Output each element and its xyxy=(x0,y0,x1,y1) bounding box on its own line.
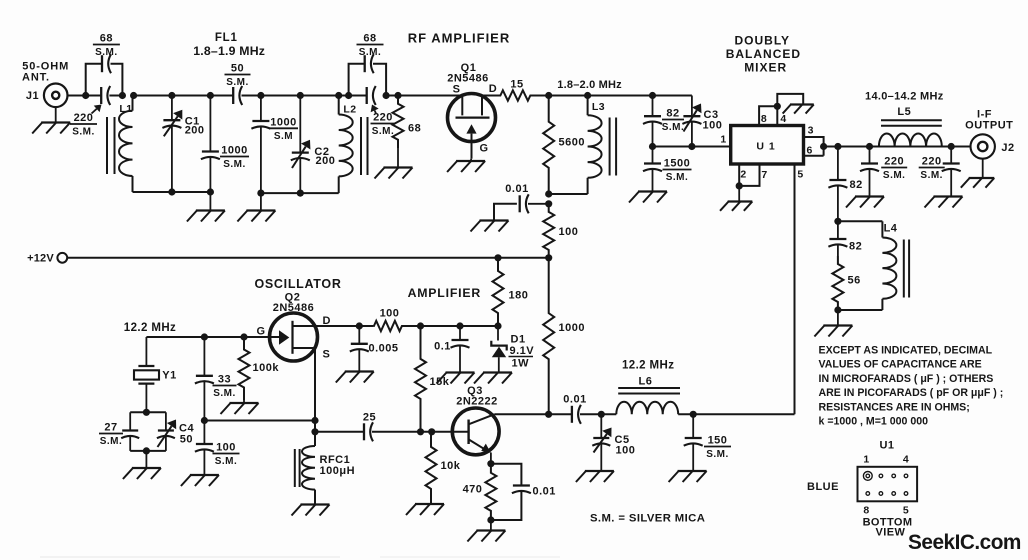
svg-text:5: 5 xyxy=(797,169,803,181)
junction C5 top xyxy=(598,411,605,418)
wire 68 gnd stem xyxy=(397,148,399,168)
svg-text:3: 3 xyxy=(808,125,814,137)
svg-text:S: S xyxy=(453,84,461,96)
transistor Q3 xyxy=(452,408,499,455)
svg-text:12.2 MHz: 12.2 MHz xyxy=(622,360,674,372)
label 2N5486 Q2 xyxy=(273,302,315,314)
capacitor 25 xyxy=(364,422,373,441)
label 220 S.M. no2 xyxy=(371,105,396,138)
label 1000 S.M. no1 xyxy=(220,145,249,171)
wire Q1 gate stem xyxy=(470,159,472,161)
label pin 5 xyxy=(797,169,803,181)
ground 1500 xyxy=(629,192,667,203)
label S Q1 xyxy=(453,84,461,96)
label 2N2222 xyxy=(456,396,498,408)
core L5 xyxy=(881,120,942,126)
inductor L6 xyxy=(616,376,678,415)
ground Q1 xyxy=(447,161,485,172)
svg-text:33: 33 xyxy=(218,374,231,386)
svg-text:+12V: +12V xyxy=(27,252,54,264)
label RFC1 xyxy=(320,454,351,466)
label pin 4 xyxy=(780,113,786,125)
junction out node xyxy=(834,143,841,150)
label 50 S.M. xyxy=(225,63,251,89)
junction L4 bottom xyxy=(834,306,841,313)
label MIXER xyxy=(744,60,787,74)
label 82 S.M. xyxy=(662,108,685,134)
svg-text:BALANCED: BALANCED xyxy=(726,47,801,61)
wire pin 8 xyxy=(759,106,777,125)
capacitor 68 S.M. input xyxy=(102,54,111,73)
resistor 10k xyxy=(426,432,461,504)
capacitor 0.1 xyxy=(434,326,469,373)
ground tank2 xyxy=(237,211,275,222)
svg-text:8: 8 xyxy=(863,505,869,517)
label C1 200 xyxy=(185,115,205,136)
inductor L4 xyxy=(882,221,897,310)
label 1.8-2.0 MHz xyxy=(557,79,622,91)
wire input parallel loop xyxy=(86,64,123,96)
faint caption fragment xyxy=(40,556,560,558)
label 150 S.M. xyxy=(704,435,731,461)
wire Q2 S down xyxy=(314,348,316,432)
junction C1 bottom xyxy=(168,188,175,195)
junction 180 bottom xyxy=(494,322,501,329)
label G Q2 xyxy=(256,326,265,338)
svg-text:10k: 10k xyxy=(441,460,461,472)
svg-text:2N2222: 2N2222 xyxy=(456,396,498,408)
junction C2 top xyxy=(297,92,304,99)
label pin 7 xyxy=(761,169,767,181)
junction 0.1 top xyxy=(456,322,463,329)
wire pin 2 xyxy=(738,164,740,186)
label D1 xyxy=(511,334,526,346)
capacitor C1 xyxy=(162,96,182,193)
label C4 50 xyxy=(179,423,194,446)
svg-text:IN MICROFARADS ( μF ) ; OTHER: IN MICROFARADS ( μF ) ; OTHERS xyxy=(819,373,994,385)
wire J1 stem xyxy=(55,107,57,122)
ground 0.1 xyxy=(437,373,475,384)
svg-text:1.8–2.0 MHz: 1.8–2.0 MHz xyxy=(557,79,622,91)
label BOTTOM VIEW xyxy=(863,517,913,539)
label BALANCED xyxy=(726,47,801,61)
junction 33SM top xyxy=(201,333,208,340)
label pin 3 xyxy=(808,125,814,137)
junction emitter xyxy=(487,460,494,467)
junction 220-2 right xyxy=(383,92,390,99)
svg-text:2: 2 xyxy=(740,169,746,181)
svg-text:S.M.: S.M. xyxy=(372,126,395,137)
svg-text:L1: L1 xyxy=(119,103,132,115)
label 1500 S.M. xyxy=(663,158,692,184)
label U1 dip xyxy=(879,440,894,452)
note text block xyxy=(819,345,1004,428)
label 1000 S.M. no2 xyxy=(269,116,298,142)
label 68 S.M. no2 xyxy=(357,33,384,59)
label pin 6 xyxy=(807,145,813,157)
svg-text:1500: 1500 xyxy=(664,158,690,170)
resistor 15 xyxy=(482,79,549,101)
label 27 S.M. xyxy=(99,422,123,448)
svg-text:L3: L3 xyxy=(592,101,605,113)
wire C4 loop top xyxy=(130,411,166,413)
svg-text:15k: 15k xyxy=(430,376,450,388)
core L6 xyxy=(618,388,680,394)
capacitor C3 xyxy=(682,96,701,147)
svg-text:100: 100 xyxy=(380,308,400,320)
svg-text:S.M.: S.M. xyxy=(662,122,685,133)
label pin 1 xyxy=(720,134,726,146)
capacitor 82 S.M. xyxy=(643,96,662,147)
wire pin1 rail xyxy=(653,146,731,148)
svg-text:S.M.: S.M. xyxy=(883,170,906,181)
svg-text:VIEW: VIEW xyxy=(876,527,906,539)
label I-F OUTPUT xyxy=(965,109,1013,132)
label 12.2 MHz osc xyxy=(124,322,176,334)
label 220 S.M. left xyxy=(881,156,907,182)
svg-text:5600: 5600 xyxy=(559,137,585,149)
capacitor 150 S.M. xyxy=(684,414,703,471)
junction emitter gnd xyxy=(487,516,494,523)
label D Q2 xyxy=(323,315,331,327)
inductor RFC1 xyxy=(302,432,315,505)
svg-text:S.M.: S.M. xyxy=(706,449,729,460)
label pin 2 xyxy=(740,169,746,181)
label SILVER MICA xyxy=(590,513,705,525)
ground 220R xyxy=(925,197,963,208)
wire pin 6 xyxy=(804,147,824,156)
svg-text:0.01: 0.01 xyxy=(505,183,528,195)
svg-text:J1: J1 xyxy=(26,90,39,102)
junction tank2 gnd xyxy=(257,190,264,197)
capacitor C5 xyxy=(592,414,611,471)
wire pin 7 xyxy=(739,164,759,186)
svg-text:D: D xyxy=(489,83,497,95)
junction C4 bottom xyxy=(143,447,150,454)
label 2N5486 Q1 xyxy=(447,73,489,85)
svg-text:L4: L4 xyxy=(884,223,898,235)
junction 100k top xyxy=(240,333,247,340)
junction 220R top xyxy=(948,143,955,150)
svg-text:OUTPUT: OUTPUT xyxy=(965,120,1013,132)
core L3 xyxy=(610,118,617,176)
svg-text:100: 100 xyxy=(616,445,636,457)
wire to Q1 S xyxy=(386,95,462,97)
svg-text:220: 220 xyxy=(884,156,904,168)
svg-text:100: 100 xyxy=(216,442,236,454)
label OSCILLATOR xyxy=(254,277,341,291)
junction 1000 bottom amp xyxy=(545,411,552,418)
label pin 8 xyxy=(761,113,767,125)
capacitor C2 xyxy=(291,96,311,194)
inductor L1 xyxy=(119,96,133,193)
svg-text:82: 82 xyxy=(849,241,862,253)
wire S to 25 xyxy=(315,431,364,433)
svg-text:14.0–14.2 MHz: 14.0–14.2 MHz xyxy=(865,91,944,103)
capacitor 0.005 xyxy=(350,326,399,372)
junction L1 left xyxy=(119,92,126,99)
svg-text:L6: L6 xyxy=(638,376,652,388)
junction 82SM top xyxy=(649,92,656,99)
svg-text:100μH: 100μH xyxy=(320,465,356,477)
junction 82SM bottom xyxy=(649,143,656,150)
svg-text:1000: 1000 xyxy=(221,145,247,157)
svg-text:68: 68 xyxy=(363,33,376,45)
transistor Q1 xyxy=(448,94,496,159)
capacitor 220 S.M. input xyxy=(101,86,110,105)
svg-text:SeekIC.com: SeekIC.com xyxy=(908,531,1021,554)
capacitor 220 S.M. left xyxy=(860,147,879,197)
label 100uH xyxy=(320,465,356,477)
wire C4 gnd stem xyxy=(145,451,147,468)
ground J1 xyxy=(32,123,70,134)
svg-text:0.01: 0.01 xyxy=(533,486,556,498)
wire Q3 emitter xyxy=(490,453,492,464)
svg-text:4: 4 xyxy=(903,454,909,466)
label 220 S.M. input xyxy=(70,105,102,138)
wire tank1 bottom xyxy=(133,191,211,193)
svg-text:OSCILLATOR: OSCILLATOR xyxy=(254,277,341,291)
svg-text:100: 100 xyxy=(559,226,579,238)
label dip pin 8 xyxy=(863,505,869,517)
wire C4 loop bottom xyxy=(130,450,166,452)
core L2 xyxy=(361,117,368,175)
svg-text:FL1: FL1 xyxy=(215,32,238,44)
svg-text:D1: D1 xyxy=(511,334,526,346)
wire J1 to node xyxy=(68,95,102,97)
svg-text:50: 50 xyxy=(231,63,244,75)
ground RFC1 xyxy=(292,505,330,516)
resistor 5600 xyxy=(543,96,585,195)
wire tank2 ground stem xyxy=(260,193,262,210)
wire 0.01 q3 branch xyxy=(491,464,522,486)
capacitor 33 S.M. xyxy=(195,337,214,421)
svg-text:S.M. = SILVER MICA: S.M. = SILVER MICA xyxy=(590,513,705,525)
wire 12V rail xyxy=(67,257,549,259)
wire 50SM to L2 xyxy=(242,95,367,97)
ground J2 xyxy=(961,178,994,188)
wire loop2 xyxy=(349,64,387,96)
label 9.1V xyxy=(509,345,535,370)
ground C4 xyxy=(123,468,161,479)
wire out rail xyxy=(838,146,971,148)
label 68 S.M. input xyxy=(93,33,120,59)
capacitor 82 tank xyxy=(828,221,862,256)
wire pin 3 xyxy=(804,137,824,147)
wire 25 to base xyxy=(372,431,469,433)
svg-text:1W: 1W xyxy=(512,358,530,370)
junction 68SM-2 left xyxy=(345,92,352,99)
svg-text:150: 150 xyxy=(708,435,728,447)
junction pin4 loop xyxy=(774,103,781,110)
inductor L3 xyxy=(588,96,606,195)
capacitor 82 series xyxy=(828,147,862,222)
ground C5 xyxy=(576,471,614,482)
wire L6 to pin5 xyxy=(678,413,794,415)
junction 5600 top xyxy=(545,92,552,99)
resistor 68 xyxy=(393,96,422,149)
svg-text:180: 180 xyxy=(509,290,529,302)
resistor 15k xyxy=(415,326,450,432)
capacitor 100 S.M. xyxy=(195,421,214,476)
ground 220L xyxy=(846,197,884,208)
resistor 470 xyxy=(463,464,497,520)
wire Q2 D xyxy=(315,325,359,327)
svg-text:RF AMPLIFIER: RF AMPLIFIER xyxy=(408,31,511,46)
svg-text:BLUE: BLUE xyxy=(807,481,839,493)
wire L4 bottom xyxy=(838,309,883,311)
label D Q1 xyxy=(489,83,497,95)
label Q1 xyxy=(461,62,477,74)
svg-text:Y1: Y1 xyxy=(162,370,176,382)
svg-text:DOUBLY: DOUBLY xyxy=(735,34,791,48)
label BLUE xyxy=(807,481,839,493)
wire tank2 bottom xyxy=(261,192,339,194)
label S Q2 xyxy=(323,349,331,361)
label 1.8-1.9 MHz xyxy=(193,44,265,58)
watermark SeekIC.com xyxy=(908,531,1021,554)
svg-text:82: 82 xyxy=(850,179,863,191)
wire rail Q1 to C3 xyxy=(549,95,692,97)
label dip pin 4 xyxy=(903,454,909,466)
label 14.0-14.2 MHz xyxy=(865,91,944,103)
capacitor 50 S.M. xyxy=(233,86,242,105)
svg-text:ANT.: ANT. xyxy=(22,72,50,84)
capacitor 0.01 q3 xyxy=(491,486,556,521)
junction 33 bottom xyxy=(201,417,208,424)
svg-text:50: 50 xyxy=(180,434,193,446)
resistor 100k xyxy=(239,337,280,400)
wire collector rail xyxy=(494,413,571,415)
wire pin27 gnd stem xyxy=(738,186,740,201)
junction 5600 bottom xyxy=(545,190,552,197)
svg-text:0.01: 0.01 xyxy=(563,394,586,406)
junction pin36 xyxy=(820,143,827,150)
ground L4 xyxy=(814,326,852,337)
wire cap to L1 xyxy=(109,95,122,97)
core L4 xyxy=(904,240,909,298)
label 220 S.M. right xyxy=(919,156,945,182)
junction C2 bottom xyxy=(297,190,304,197)
svg-text:200: 200 xyxy=(185,125,205,137)
wire tank1 ground stem xyxy=(209,192,211,211)
svg-text:S.M.: S.M. xyxy=(100,436,123,447)
junction 10k top xyxy=(428,428,435,435)
svg-text:1000: 1000 xyxy=(270,116,296,128)
svg-text:k =1000 , M=1 000 000: k =1000 , M=1 000 000 xyxy=(819,416,929,428)
junction C3 bottom xyxy=(688,143,695,150)
resistor 56 xyxy=(832,256,860,310)
junction 1000 bottom xyxy=(207,188,214,195)
wire L3 bottom xyxy=(549,193,588,195)
ground pin27 xyxy=(720,202,752,211)
svg-text:S.M.: S.M. xyxy=(72,127,95,138)
svg-text:S.M.: S.M. xyxy=(223,159,246,170)
ground D1 xyxy=(474,373,512,384)
junction L1 top xyxy=(130,92,137,99)
label 12.2 MHz L6 xyxy=(622,360,674,372)
capacitor 1500 S.M. xyxy=(643,147,662,192)
svg-text:S: S xyxy=(323,349,331,361)
svg-text:4: 4 xyxy=(780,113,786,125)
junction 15k top xyxy=(417,322,424,329)
wire S rail xyxy=(204,420,315,422)
wire 100k gnd stem xyxy=(243,400,245,403)
inductor L5 xyxy=(879,106,942,147)
junction 0.005 top xyxy=(356,322,363,329)
ground 0.005 xyxy=(336,372,374,383)
svg-text:7: 7 xyxy=(761,169,767,181)
resistor 100 rf xyxy=(543,204,578,258)
junction 1000 top xyxy=(545,254,552,261)
diode D1 xyxy=(491,326,506,373)
svg-text:470: 470 xyxy=(463,484,483,496)
capacitor 0.01 rf xyxy=(494,183,549,221)
capacitor 27 S.M. xyxy=(121,412,139,451)
label 50-OHM ANT. xyxy=(22,61,69,84)
svg-text:AMPLIFIER: AMPLIFIER xyxy=(408,286,481,300)
connector J1 xyxy=(26,84,68,108)
label dip pin 5 xyxy=(903,505,909,517)
op-amp U1 box xyxy=(731,126,804,165)
svg-text:U 1: U 1 xyxy=(756,141,775,153)
junction 180 top xyxy=(494,254,501,261)
wire 0.01 to C5 xyxy=(580,413,616,415)
core L1 xyxy=(107,117,115,174)
svg-text:MIXER: MIXER xyxy=(744,60,787,74)
wire osc rail xyxy=(146,336,279,338)
svg-text:S.M.: S.M. xyxy=(213,388,236,399)
svg-text:S.M.: S.M. xyxy=(359,47,382,58)
junction 150 top xyxy=(690,411,697,418)
svg-text:1000: 1000 xyxy=(559,322,585,334)
capacitor 68 S.M. no2 xyxy=(365,54,374,73)
wire pin 5 xyxy=(794,164,796,414)
junction 15k bottom xyxy=(417,428,424,435)
capacitor 1000 S.M. no2 xyxy=(251,96,270,194)
svg-text:RESISTANCES ARE IN OHMS;: RESISTANCES ARE IN OHMS; xyxy=(819,401,970,413)
svg-text:56: 56 xyxy=(848,275,861,287)
resistor 180 xyxy=(493,258,529,326)
label DOUBLY xyxy=(735,34,791,48)
junction 68res top xyxy=(394,92,401,99)
svg-text:68: 68 xyxy=(100,33,113,45)
svg-text:J2: J2 xyxy=(1001,142,1014,154)
svg-text:1: 1 xyxy=(863,454,869,466)
wire node to C1 xyxy=(134,95,172,97)
label 100 S.M. xyxy=(213,442,240,468)
capacitor 220 S.M. no2 xyxy=(367,86,376,105)
capacitor 220 S.M. right xyxy=(942,147,961,197)
label C2 200 xyxy=(314,146,335,167)
svg-text:25: 25 xyxy=(363,412,376,424)
U1 bottom view package xyxy=(858,467,918,502)
ground tank1 xyxy=(187,211,225,222)
label C3 100 xyxy=(703,109,723,132)
svg-text:L2: L2 xyxy=(343,104,356,116)
ground 10k xyxy=(406,504,444,515)
svg-text:S.M.: S.M. xyxy=(920,170,943,181)
label Q2 xyxy=(285,292,301,304)
svg-text:S.M.: S.M. xyxy=(95,47,118,58)
ground 68 xyxy=(375,168,413,179)
wire J2 stem xyxy=(982,158,984,178)
svg-text:U1: U1 xyxy=(879,440,894,452)
wire C1 to 50SM xyxy=(172,95,233,97)
ground 100k xyxy=(221,403,259,414)
label +12V xyxy=(27,252,54,264)
svg-text:68: 68 xyxy=(408,123,421,135)
